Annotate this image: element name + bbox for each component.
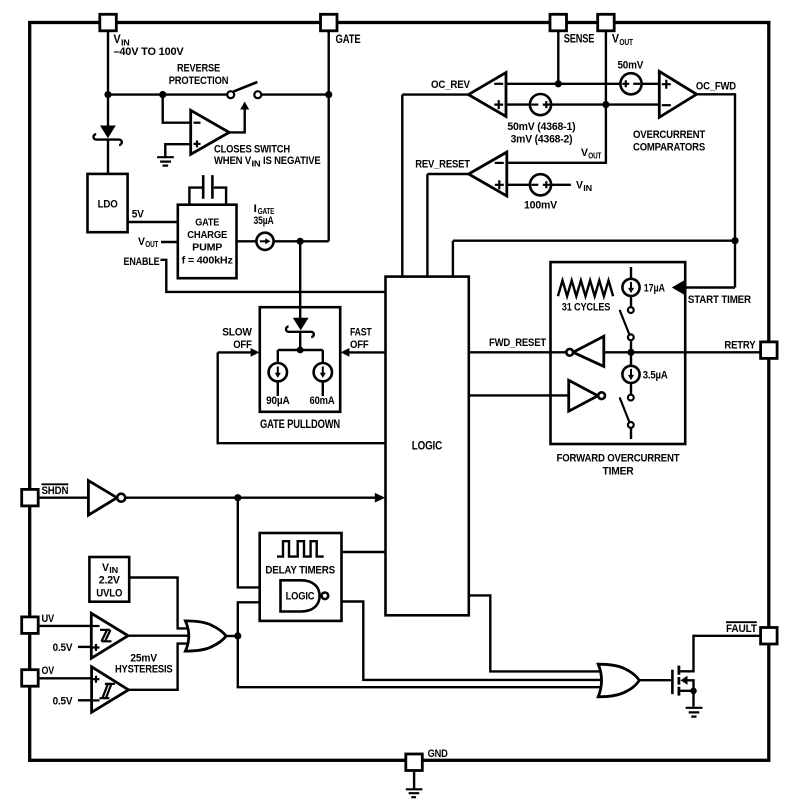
svg-text:RETRY: RETRY xyxy=(724,340,756,352)
svg-text:LOGIC: LOGIC xyxy=(412,438,443,452)
svg-text:3mV (4368-2): 3mV (4368-2) xyxy=(511,133,573,145)
svg-text:IN: IN xyxy=(583,184,592,193)
svg-text:FAST: FAST xyxy=(350,327,372,339)
svg-text:17µA: 17µA xyxy=(644,282,665,294)
svg-text:60mA: 60mA xyxy=(310,395,335,407)
svg-text:GATE PULLDOWN: GATE PULLDOWN xyxy=(260,419,340,431)
svg-text:LOGIC: LOGIC xyxy=(286,590,315,602)
svg-text:OFF: OFF xyxy=(350,339,369,351)
svg-text:IN: IN xyxy=(252,158,261,168)
svg-text:FAULT: FAULT xyxy=(726,623,757,635)
svg-text:GND: GND xyxy=(428,748,448,760)
svg-text:5V: 5V xyxy=(132,208,145,220)
svg-text:CHARGE: CHARGE xyxy=(187,230,227,241)
svg-text:3.5µA: 3.5µA xyxy=(643,370,668,382)
svg-text:IS NEGATIVE: IS NEGATIVE xyxy=(263,155,321,167)
svg-text:OVERCURRENT: OVERCURRENT xyxy=(633,129,705,141)
svg-text:90µA: 90µA xyxy=(266,395,290,407)
svg-text:UV: UV xyxy=(42,613,55,625)
svg-text:f = 400kHz: f = 400kHz xyxy=(182,255,233,266)
svg-text:FORWARD OVERCURRENT: FORWARD OVERCURRENT xyxy=(557,452,680,464)
svg-text:OC_REV: OC_REV xyxy=(431,79,471,91)
svg-text:SHDN: SHDN xyxy=(42,485,69,497)
svg-text:V: V xyxy=(612,32,619,46)
svg-text:OUT: OUT xyxy=(619,37,633,47)
svg-text:SENSE: SENSE xyxy=(564,32,595,46)
svg-text:PUMP: PUMP xyxy=(192,242,222,253)
svg-text:TIMER: TIMER xyxy=(603,465,634,477)
svg-text:0.5V: 0.5V xyxy=(53,695,74,707)
svg-text:50mV (4368-1): 50mV (4368-1) xyxy=(507,121,576,133)
svg-text:DELAY TIMERS: DELAY TIMERS xyxy=(265,565,335,577)
svg-text:CLOSES SWITCH: CLOSES SWITCH xyxy=(214,143,290,155)
svg-text:START TIMER: START TIMER xyxy=(688,294,751,306)
svg-text:ENABLE: ENABLE xyxy=(124,256,160,268)
svg-text:GATE: GATE xyxy=(195,218,219,229)
svg-text:100mV: 100mV xyxy=(524,200,558,212)
svg-text:OV: OV xyxy=(42,665,55,677)
svg-text:V: V xyxy=(114,32,121,46)
svg-text:35µA: 35µA xyxy=(254,215,274,227)
svg-text:2.2V: 2.2V xyxy=(99,575,121,587)
svg-text:50mV: 50mV xyxy=(617,60,643,72)
svg-text:SLOW: SLOW xyxy=(222,327,252,339)
svg-text:COMPARATORS: COMPARATORS xyxy=(633,142,705,154)
svg-text:UVLO: UVLO xyxy=(96,588,123,600)
svg-text:WHEN V: WHEN V xyxy=(214,155,252,167)
svg-text:–40V TO 100V: –40V TO 100V xyxy=(114,46,185,58)
svg-text:OC_FWD: OC_FWD xyxy=(696,80,736,92)
svg-text:I: I xyxy=(254,203,257,215)
svg-text:OUT: OUT xyxy=(588,151,601,160)
svg-text:OUT: OUT xyxy=(145,240,158,249)
svg-text:PROTECTION: PROTECTION xyxy=(169,75,229,87)
svg-text:OFF: OFF xyxy=(233,339,252,351)
svg-text:LDO: LDO xyxy=(98,198,119,210)
svg-text:0.5V: 0.5V xyxy=(53,642,74,654)
svg-text:REV_RESET: REV_RESET xyxy=(415,158,470,170)
svg-text:REVERSE: REVERSE xyxy=(177,63,220,75)
svg-text:FWD_RESET: FWD_RESET xyxy=(489,337,546,349)
svg-text:GATE: GATE xyxy=(336,32,361,46)
svg-text:HYSTERESIS: HYSTERESIS xyxy=(115,664,173,676)
svg-text:31 CYCLES: 31 CYCLES xyxy=(562,301,611,313)
